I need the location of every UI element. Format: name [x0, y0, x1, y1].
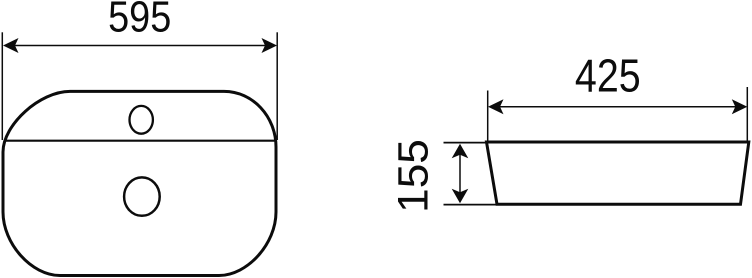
svg-text:595: 595 [108, 0, 171, 41]
svg-text:425: 425 [575, 51, 641, 103]
svg-text:155: 155 [390, 139, 437, 213]
